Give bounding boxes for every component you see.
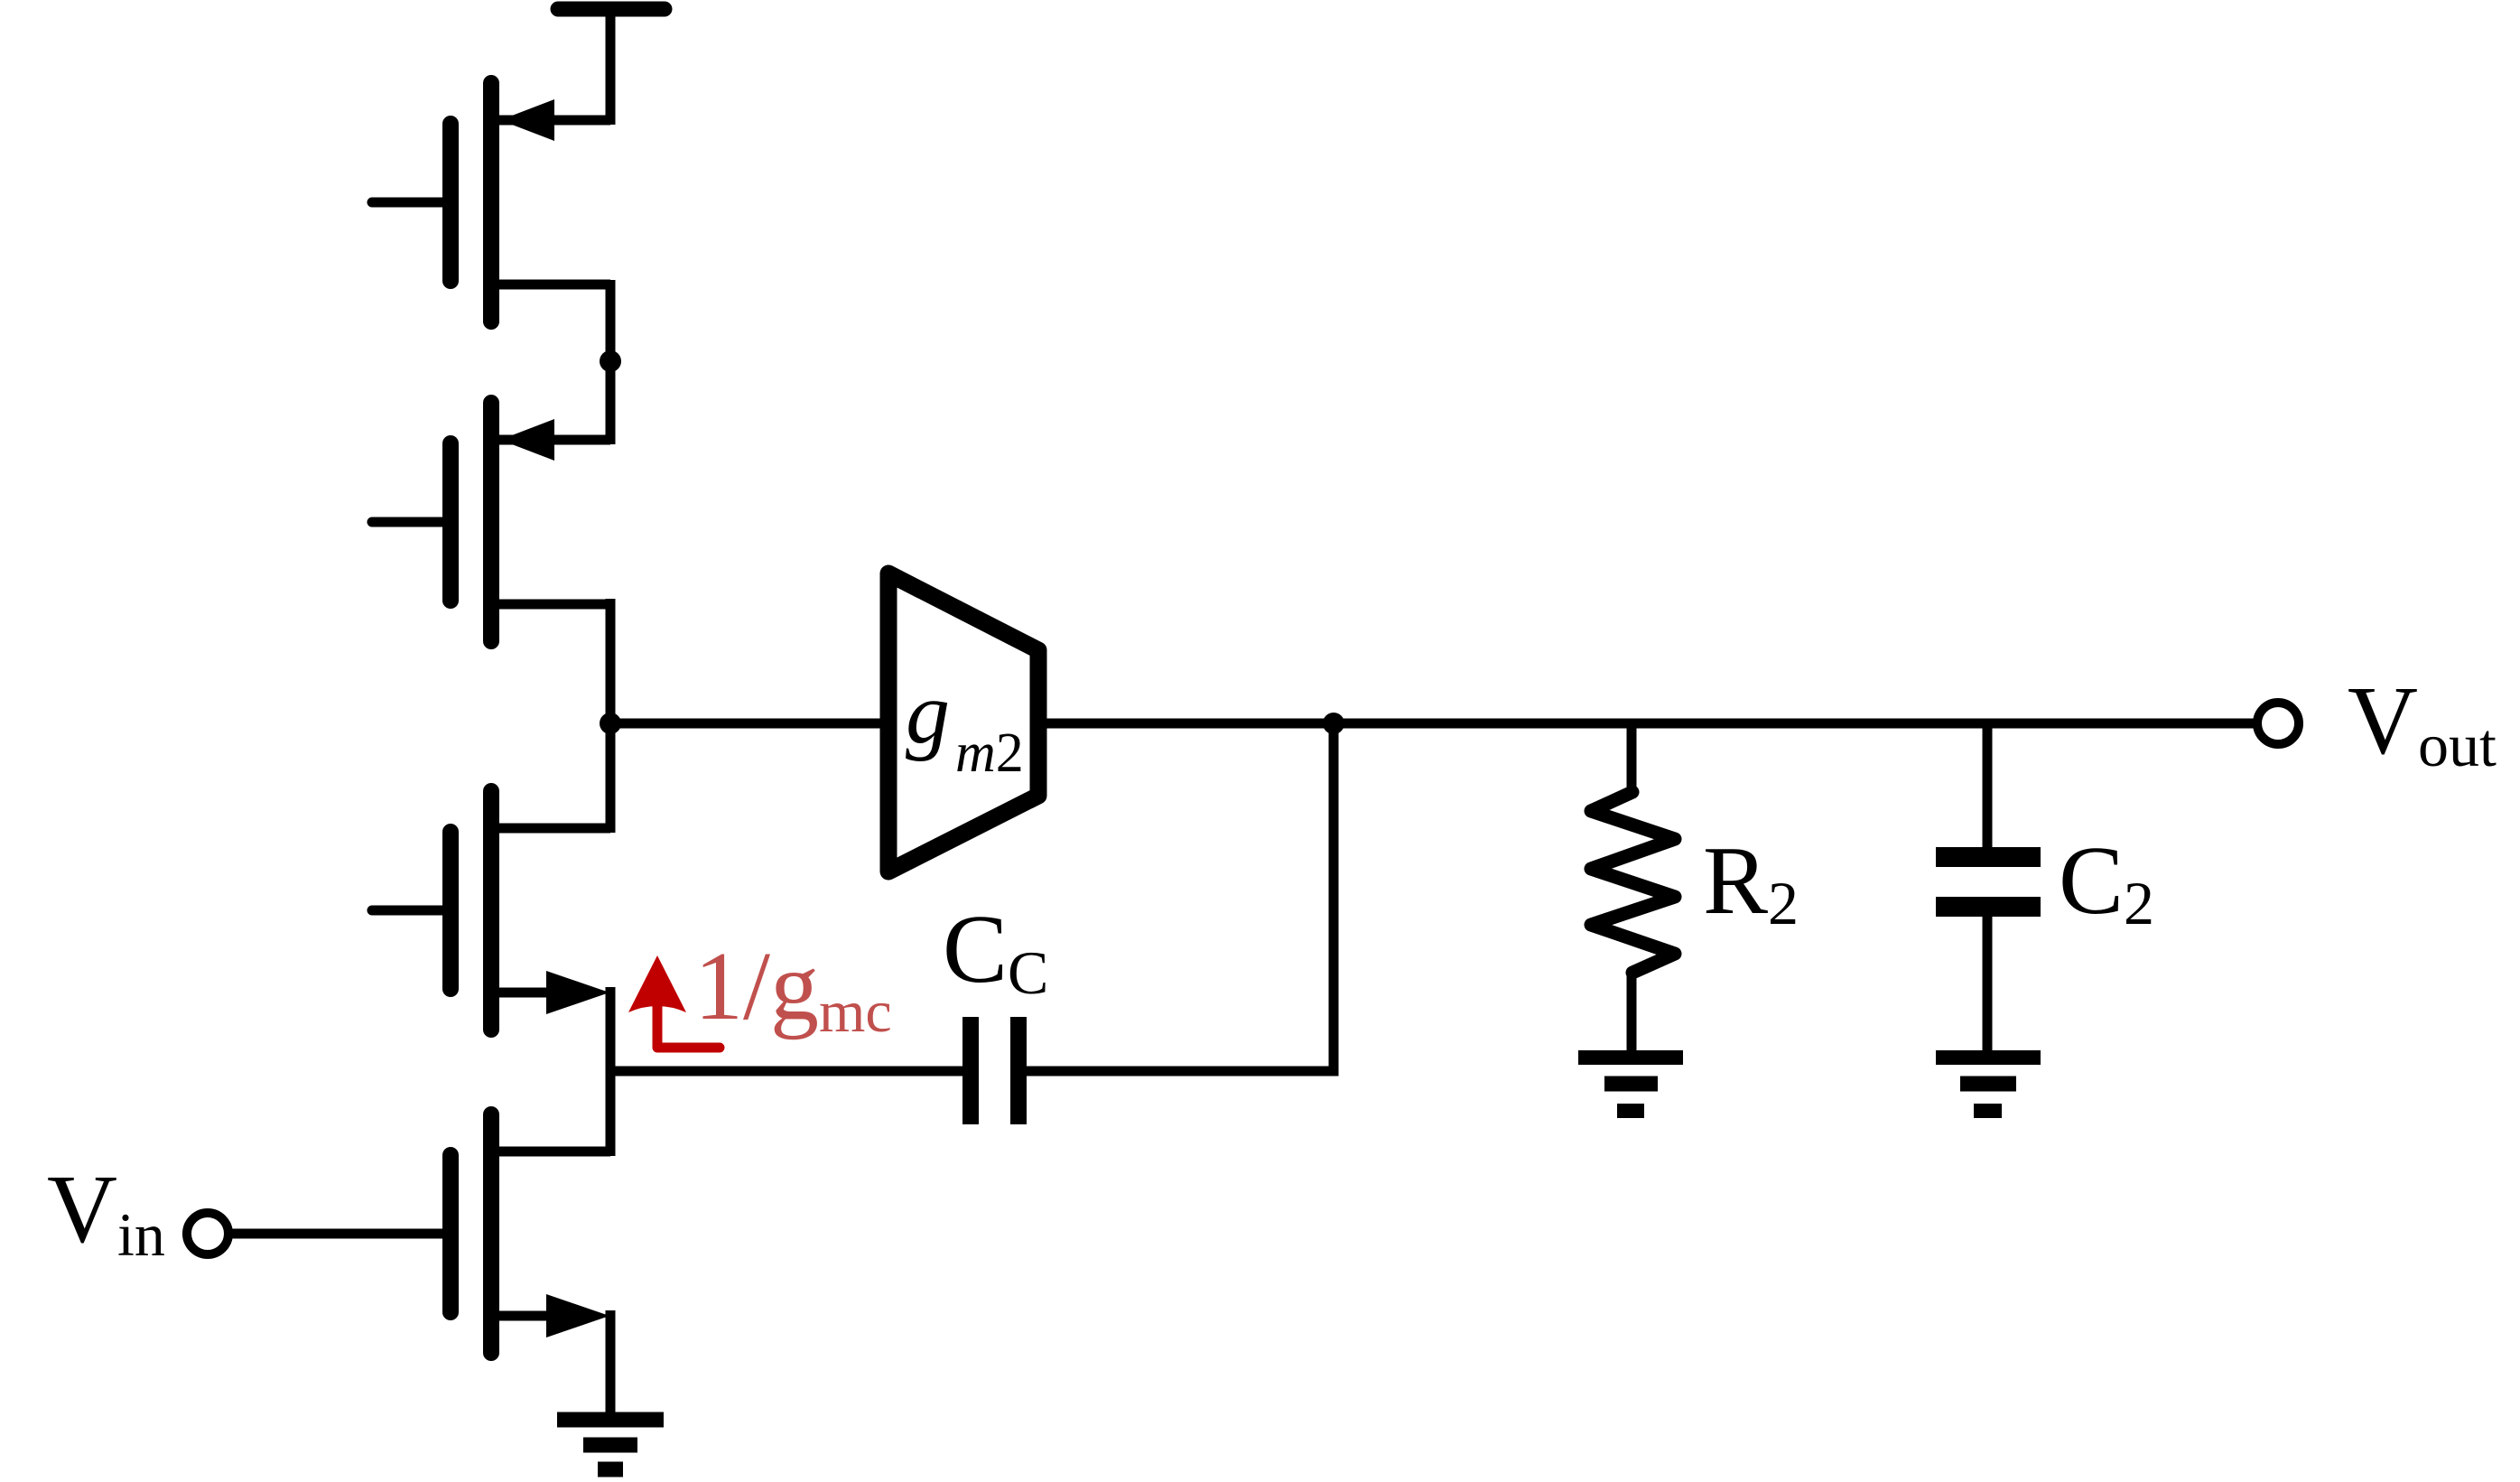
resistor R2: [1591, 719, 1675, 1050]
ground (R2): [1578, 1058, 1683, 1111]
VDD supply bar: [558, 2, 665, 17]
svg-text:m2: m2: [955, 722, 1024, 784]
label C2: [2059, 827, 2154, 937]
wire VDD stub: [606, 9, 616, 125]
wire M3 source to M4 drain: [606, 987, 616, 1156]
wire M4 source to ground: [606, 1310, 616, 1413]
node A dot (first stage output): [600, 713, 621, 734]
node dot between M1 and M2: [600, 350, 621, 372]
Vout terminal: [2257, 703, 2299, 744]
svg-text:g: g: [906, 665, 950, 762]
op-amp gm2 (transconductance stage): [888, 573, 1038, 871]
capacitor C2: [1936, 719, 2041, 1050]
Vout label: [2348, 667, 2497, 779]
ground (M4 source): [557, 1420, 664, 1469]
label R2: [1703, 827, 1799, 937]
label 1/gmc: [694, 933, 892, 1045]
Vin label: [47, 1156, 165, 1269]
transistor M4 (NMOS input device): [228, 1114, 610, 1353]
node dot at Cc tap on output: [1323, 713, 1344, 734]
wire Cc to M3 source node: [610, 1067, 962, 1077]
wire M1 drain to M2 source: [606, 280, 616, 444]
label CC: [943, 896, 1048, 1007]
wire gm2 output to Vout: [1038, 719, 2254, 729]
Vin terminal: [187, 1213, 228, 1254]
transistor M1 (PMOS current source): [372, 83, 610, 322]
ground (C2): [1936, 1058, 2041, 1111]
capacitor CC: [971, 1017, 1018, 1124]
red impedance arrow 1/gmc: [628, 955, 720, 1048]
transistor M3 (NMOS cascode): [372, 791, 610, 1030]
wire M2 drain to M3 drain (first stage output rail): [606, 599, 616, 833]
wire node A to gm2 input: [610, 719, 888, 729]
transistor M2 (PMOS cascode): [372, 403, 610, 641]
wire Cc feedback (down and left to capacitor): [1027, 723, 1334, 1071]
